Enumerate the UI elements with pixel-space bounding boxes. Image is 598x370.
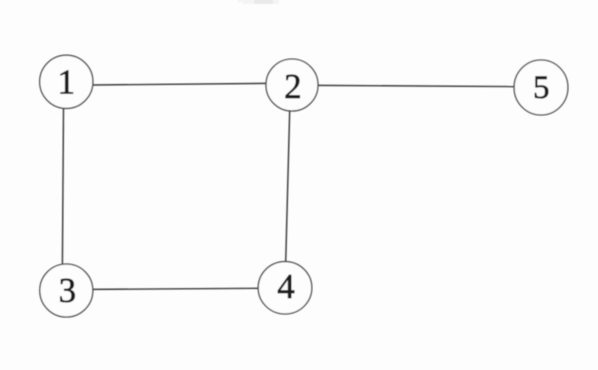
- svg-text:4: 4: [277, 267, 295, 306]
- node 2: [266, 59, 318, 111]
- wire edge 3-4: [93, 288, 259, 289]
- wire edge 1-2: [93, 83, 267, 85]
- svg-text:2: 2: [284, 67, 302, 106]
- node 4: [258, 262, 312, 314]
- svg-text:3: 3: [59, 271, 77, 310]
- wire edge 1-3: [62, 108, 63, 264]
- svg-text:5: 5: [533, 70, 550, 106]
- wire edge 2-5: [318, 85, 515, 86]
- node 1: [40, 55, 93, 108]
- cropped caption remnant at top: [242, 0, 279, 4]
- svg-text:1: 1: [58, 63, 76, 102]
- node 3: [40, 264, 93, 317]
- wire edge 2-4: [286, 111, 290, 263]
- node 5: [514, 60, 568, 115]
